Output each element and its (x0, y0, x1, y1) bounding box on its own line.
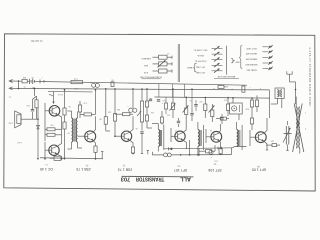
svg-text:2SB 1 73: 2SB 1 73 (118, 167, 132, 171)
svg-text:39k: 39k (117, 108, 120, 110)
svg-text:4-035-27 STANDARD RADIO CORP: 4-035-27 STANDARD RADIO CORP (308, 47, 312, 107)
potentiometer VR volume (135, 88, 143, 130)
transistor T5 wiring (45, 103, 62, 119)
svg-text:x: x (260, 87, 261, 89)
svg-text:K-W: K-W (143, 71, 148, 73)
resistor R14 (199, 145, 215, 153)
capacitor C8 (220, 114, 223, 124)
parallel feed wire (48, 90, 93, 93)
oscillator coil box (275, 88, 284, 99)
transistor T1 type label (252, 165, 266, 172)
resistor R4 (45, 119, 62, 141)
transformer TR1 secondary (76, 112, 82, 149)
capacitor C10 (157, 100, 163, 104)
legend sub-bracket (186, 63, 197, 72)
svg-text:GRUEN 455: GRUEN 455 (245, 63, 258, 65)
svg-text:4,7k: 4,7k (83, 102, 86, 104)
svg-text:3V: 3V (31, 76, 34, 78)
resistor R5 chain (63, 89, 66, 160)
main supply bus (19, 89, 270, 90)
resistor R15 (200, 97, 207, 118)
rail parts right (213, 85, 245, 92)
svg-text:0,2W: 0,2W (8, 122, 12, 124)
wire T2 emitter end (186, 148, 187, 149)
rail plus marks right (249, 86, 261, 89)
switch label (22, 76, 26, 87)
svg-text:EIN: EIN (22, 76, 26, 78)
svg-text:100: 100 (27, 104, 30, 106)
svg-text:a: a (305, 112, 306, 114)
AGC arrow 3 (209, 106, 215, 113)
AGC arrow 2 (183, 106, 189, 113)
svg-text:10k: 10k (151, 111, 154, 113)
svg-text:47k: 47k (167, 114, 170, 116)
svg-text:ROT 1600: ROT 1600 (246, 47, 257, 49)
svg-text:SFT 106: SFT 106 (208, 168, 221, 172)
svg-text:2x: 2x (23, 86, 25, 88)
node diode-bus (37, 158, 39, 160)
transistor T1b type label (208, 159, 221, 172)
transistor T1 collector (264, 118, 267, 133)
legend divider lines (178, 44, 179, 82)
capacitor C13 electrolytic (209, 150, 213, 158)
legend block: alignment rows (193, 46, 223, 73)
transistor T1 (255, 132, 266, 143)
svg-text:+: + (127, 105, 129, 107)
resistor R21 (255, 95, 258, 112)
IF transformer FI2 winding (197, 122, 199, 156)
svg-text:250: 250 (74, 87, 77, 89)
IF strip labels (162, 99, 227, 132)
resistor R3 (45, 117, 62, 131)
transformer label (67, 132, 70, 134)
battery B1 (30, 79, 41, 84)
stage2 labels (68, 105, 102, 119)
transistor T4 (85, 131, 96, 142)
transistor T1b (211, 131, 222, 142)
svg-text:O-O: O-O (214, 159, 218, 161)
wire output node (31, 108, 39, 125)
svg-text:A-B: A-B (144, 64, 148, 67)
border frame (4, 34, 315, 191)
IF transformer FI2 secondary (202, 125, 204, 150)
svg-text:(S): (S) (122, 164, 125, 166)
rail arrow lower (9, 87, 18, 90)
legend block: trimmer colour rows (240, 45, 273, 72)
svg-text:100: 100 (50, 123, 53, 125)
IF transformer FI2 core (200, 130, 201, 146)
speaker LS (15, 111, 31, 128)
svg-text:TRANSISTOR: TRANSISTOR (136, 176, 165, 182)
bus end stub (101, 152, 103, 159)
legend block: controls table (141, 52, 172, 73)
transformer TR1 core (74, 119, 75, 142)
svg-text:SFT 107: SFT 107 (174, 168, 187, 172)
ferrite rod strokes (293, 104, 304, 153)
resistor R8 (115, 113, 133, 116)
ferrite antenna coil (296, 97, 300, 154)
transistor T1b base (206, 129, 211, 143)
svg-text:+: + (41, 77, 43, 79)
AGC arrow 1 (170, 104, 176, 111)
resistor R10 (145, 111, 154, 128)
capacitor C7 (177, 118, 180, 127)
svg-text:10n: 10n (99, 118, 102, 120)
transistor T1 emitter (264, 141, 268, 150)
resistor R23 (165, 97, 168, 114)
capacitor C5 electrolytic (127, 88, 137, 132)
svg-text:520 - 1605 Kc: 520 - 1605 Kc (193, 49, 208, 51)
capacitor C11 (190, 88, 193, 121)
transistor T6 (49, 145, 59, 155)
transistor T2 type label (174, 165, 187, 172)
legend mid brace (231, 58, 239, 63)
svg-text:455 Kc: 455 Kc (196, 54, 204, 56)
svg-text:MW: MW (236, 61, 240, 63)
capacitor C12 (194, 100, 197, 111)
speaker label (8, 122, 21, 144)
svg-text:UB1: UB1 (32, 86, 36, 88)
svg-text:ZF 2 455: ZF 2 455 (195, 71, 205, 73)
resistor R13 (185, 97, 188, 125)
capacitor C3 (27, 99, 35, 119)
transistor T5 (49, 106, 60, 117)
svg-text:SCHALTERSTELLUNG: SCHALTERSTELLUNG (140, 76, 162, 79)
svg-text:BLAU 455: BLAU 455 (246, 69, 257, 72)
second bus (155, 97, 271, 98)
collector feed arrow (49, 92, 63, 105)
svg-text:0,05: 0,05 (162, 99, 165, 101)
bus end drop wire (269, 90, 271, 118)
svg-text:0,3: 0,3 (167, 52, 169, 54)
svg-text:2SB 1 75: 2SB 1 75 (76, 167, 90, 171)
rail tie wire 3 (184, 84, 186, 97)
variable capacitor CV (284, 121, 292, 151)
svg-text:ABGLEICHFOLGE: ABGLEICHFOLGE (217, 75, 235, 78)
IF transformer FI1 winding (237, 122, 238, 146)
svg-text:6,8k: 6,8k (245, 108, 248, 110)
svg-text:LS 8: LS 8 (17, 141, 22, 143)
transistor T6 wiring (44, 140, 62, 160)
svg-text:1k: 1k (150, 97, 152, 99)
svg-text:(R): (R) (85, 164, 88, 166)
transistor T1b collector (219, 124, 220, 133)
earphone jack (287, 71, 297, 104)
legend caption B (214, 75, 239, 78)
resistor R18 (216, 117, 229, 120)
transistor T2 collector (183, 124, 186, 133)
resistor R17 (226, 97, 229, 116)
rail connector wire (18, 81, 20, 88)
svg-text:5k: 5k (189, 99, 191, 101)
svg-text:5k: 5k (135, 127, 137, 129)
svg-text:5k: 5k (68, 105, 70, 107)
diode D1 (37, 125, 40, 158)
resistor R22 (78, 101, 86, 118)
legend mid line (226, 46, 228, 75)
transistor T3 (121, 131, 131, 141)
transformer TR1 primary (68, 111, 73, 149)
svg-text:1,5k: 1,5k (74, 78, 78, 80)
svg-text:+: + (249, 86, 251, 88)
svg-text:WEISS 600: WEISS 600 (245, 58, 257, 60)
emitter return wire (189, 140, 191, 156)
rail stub ticks (40, 77, 46, 84)
wire speaker feed (34, 88, 36, 96)
stage1 value label (50, 123, 53, 125)
feedback capacitor CF (50, 156, 65, 160)
IF transformer FI3 core (160, 130, 161, 146)
transistor T4 emitter (93, 141, 97, 160)
capacitor C2 (110, 78, 114, 86)
svg-text:(3): (3) (175, 129, 178, 131)
rail arrow upper (9, 80, 22, 83)
transistor T3 type label (118, 164, 132, 171)
corner note text (30, 39, 42, 42)
svg-text:(M): (M) (257, 165, 260, 167)
svg-text:SFT 1 05: SFT 1 05 (252, 168, 266, 172)
connector pair (164, 153, 172, 157)
svg-text:703: 703 (121, 176, 131, 182)
svg-text:Nr 126 301: Nr 126 301 (30, 39, 42, 42)
transistor T1b emitter (219, 141, 222, 155)
svg-text:140: 140 (271, 140, 274, 142)
capacitor C1 electrolytic (90, 81, 100, 88)
legend caption A (140, 76, 162, 79)
svg-text:GELB 1400: GELB 1400 (245, 52, 257, 54)
right margin id text (308, 47, 312, 107)
svg-text:2k2: 2k2 (200, 100, 203, 102)
capacitor C6 (140, 132, 143, 154)
title text (121, 176, 191, 182)
node bus start (18, 88, 20, 90)
svg-text:2 x: 2 x (45, 163, 48, 165)
transistor T3 emitter (129, 140, 134, 154)
svg-text:ALL: ALL (179, 176, 191, 182)
transistor T5 T6 type label (40, 163, 53, 171)
svg-text:(B): (B) (213, 163, 216, 165)
battery label (31, 76, 36, 88)
svg-text:50: 50 (110, 78, 113, 80)
trimmer parts (266, 140, 280, 147)
title underline (122, 175, 194, 178)
node detector (180, 148, 200, 155)
bottom return bus (40, 158, 103, 159)
svg-text:OC 1 45: OC 1 45 (40, 167, 53, 171)
node battery junction (18, 80, 20, 82)
frame edge tick text (9, 96, 11, 98)
IF can FI1 box (230, 103, 243, 114)
svg-text:+: + (161, 102, 163, 104)
svg-text:(G): (G) (177, 165, 180, 167)
resistor R1 on rail (71, 78, 83, 89)
variable capacitor arrow (283, 128, 291, 143)
transistor T2 (175, 131, 185, 141)
IF transformer FI1 secondary (241, 125, 243, 150)
svg-text:TR: TR (67, 132, 70, 134)
svg-text:20a13: 20a13 (58, 93, 63, 95)
svg-text:220: 220 (108, 111, 111, 113)
IF can leads (232, 97, 239, 120)
svg-text:+: + (210, 156, 212, 158)
wire stub R10 end (147, 151, 149, 155)
transformer tap wire (78, 135, 85, 137)
rail tie wire 1 (158, 84, 160, 97)
switch S1 (22, 79, 30, 83)
resistor R2 (33, 96, 39, 119)
oscillator coil leads (271, 99, 282, 109)
resistor R7 (113, 88, 120, 136)
transistor T1 base (250, 130, 255, 146)
antenna terminal marks (305, 112, 306, 130)
resistor R12 (167, 88, 175, 118)
transistor T4 type label (76, 164, 90, 171)
transistor T2 emitter (183, 140, 187, 148)
transistor T2 base (171, 128, 175, 142)
resistor R6 (104, 88, 111, 131)
svg-text:+: + (231, 88, 233, 91)
svg-text:EIN-AUS: EIN-AUS (141, 57, 150, 60)
IF transformer FI1 core (239, 130, 240, 146)
transistor T3 base wire (114, 135, 121, 137)
transistor T4 collector (80, 89, 96, 132)
capacitor C9 (145, 99, 152, 103)
rail tie wire 2 (172, 84, 174, 97)
svg-text:b: b (305, 128, 306, 130)
IF transformer FI3 winding (152, 124, 160, 152)
resistor R9 (145, 88, 152, 115)
svg-text:0,05: 0,05 (224, 99, 227, 101)
svg-text:40: 40 (9, 96, 11, 98)
IF transformer FI3 secondary (163, 125, 165, 151)
resistor R11 (160, 111, 163, 125)
detector output line (153, 146, 247, 155)
svg-text:ABGL: ABGL (186, 66, 192, 69)
svg-text:ZF 1 455: ZF 1 455 (195, 65, 205, 67)
svg-text:(4): (4) (210, 129, 213, 131)
resistor R16 (211, 104, 214, 122)
upper feed rail (46, 82, 247, 86)
svg-text:OSZ 975 Kc: OSZ 975 Kc (194, 60, 207, 62)
resistor R20 (245, 97, 253, 130)
